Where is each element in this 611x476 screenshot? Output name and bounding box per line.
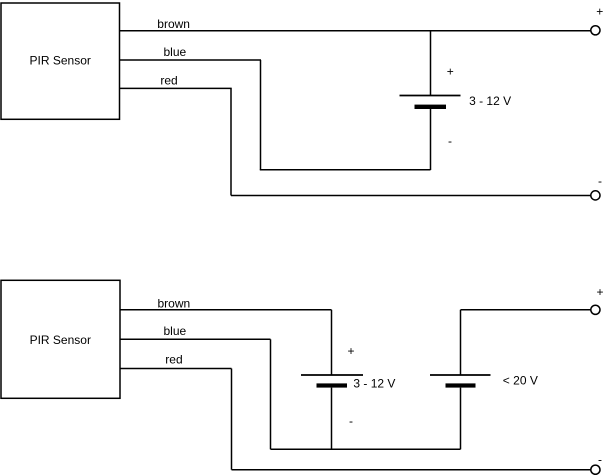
svg-text:red: red xyxy=(160,74,177,88)
terminal minus (top circuit) xyxy=(591,191,600,200)
wire battery BT2 negative lead (bottom) xyxy=(331,388,333,450)
wire blue horizontal from U2 (bottom) xyxy=(120,338,271,340)
battery BT2 positive plate (bottom) xyxy=(301,374,363,376)
svg-text:3 - 12 V: 3 - 12 V xyxy=(353,377,395,391)
terminal plus (top circuit) xyxy=(591,26,600,35)
svg-text:3 - 12 V: 3 - 12 V xyxy=(469,94,511,108)
svg-text:blue: blue xyxy=(164,45,187,59)
wire brown horizontal (top circuit) xyxy=(120,30,592,32)
wire battery BT3 negative lead (bottom) xyxy=(460,388,462,450)
wire negative bus joining BT2 BT3 and blue (bottom) xyxy=(271,448,461,450)
wire red to minus terminal (bottom) xyxy=(232,469,592,471)
svg-text:< 20 V: < 20 V xyxy=(503,374,538,388)
wire red vertical (top) xyxy=(230,88,232,195)
battery BT2 negative plate (bottom) xyxy=(317,383,348,387)
wire red horizontal from U1 (top) xyxy=(120,87,232,89)
PIR sensor box U1 (top circuit) xyxy=(1,3,120,119)
svg-text:+: + xyxy=(447,64,454,78)
wire blue vertical (bottom) xyxy=(270,339,272,449)
wire battery BT3 to plus terminal (bottom) xyxy=(461,309,592,311)
svg-text:brown: brown xyxy=(158,297,191,311)
terminal minus (bottom circuit) xyxy=(591,465,600,474)
battery BT1 negative plate (top) xyxy=(415,105,447,109)
wire red horizontal from U2 (bottom) xyxy=(120,368,232,370)
wire blue vertical (top) xyxy=(260,60,262,170)
wire blue to battery BT1 minus (top) xyxy=(260,169,431,171)
svg-text:brown: brown xyxy=(157,17,190,31)
battery BT1 positive plate (top) xyxy=(400,95,461,97)
wire battery BT3 positive lead vertical (bottom) xyxy=(460,310,462,375)
wire brown horizontal (bottom circuit) xyxy=(120,309,332,311)
svg-text:-: - xyxy=(448,134,452,148)
svg-text:PIR Sensor: PIR Sensor xyxy=(30,53,91,67)
wire red vertical (bottom) xyxy=(231,369,233,470)
wire battery BT1 negative lead (top) xyxy=(430,109,432,170)
battery BT3 negative plate (bottom) xyxy=(446,383,476,387)
wire blue horizontal from U1 (top) xyxy=(120,59,262,61)
svg-text:PIR Sensor: PIR Sensor xyxy=(30,333,91,347)
wire brown vertical to battery BT2 (bottom) xyxy=(331,310,333,375)
wire red to minus terminal (top) xyxy=(231,195,591,197)
svg-text:red: red xyxy=(165,353,182,367)
terminal plus (bottom circuit) xyxy=(591,305,600,314)
svg-text:+: + xyxy=(596,285,603,299)
svg-text:-: - xyxy=(598,453,602,467)
svg-text:+: + xyxy=(596,5,603,19)
svg-text:-: - xyxy=(349,414,353,428)
PIR sensor box U2 (bottom circuit) xyxy=(1,280,120,398)
svg-text:-: - xyxy=(598,174,602,188)
svg-text:blue: blue xyxy=(164,324,187,338)
battery BT3 positive plate (bottom) xyxy=(430,374,491,376)
wire battery BT1 positive lead tap from brown (top) xyxy=(430,31,432,96)
svg-text:+: + xyxy=(347,344,354,358)
